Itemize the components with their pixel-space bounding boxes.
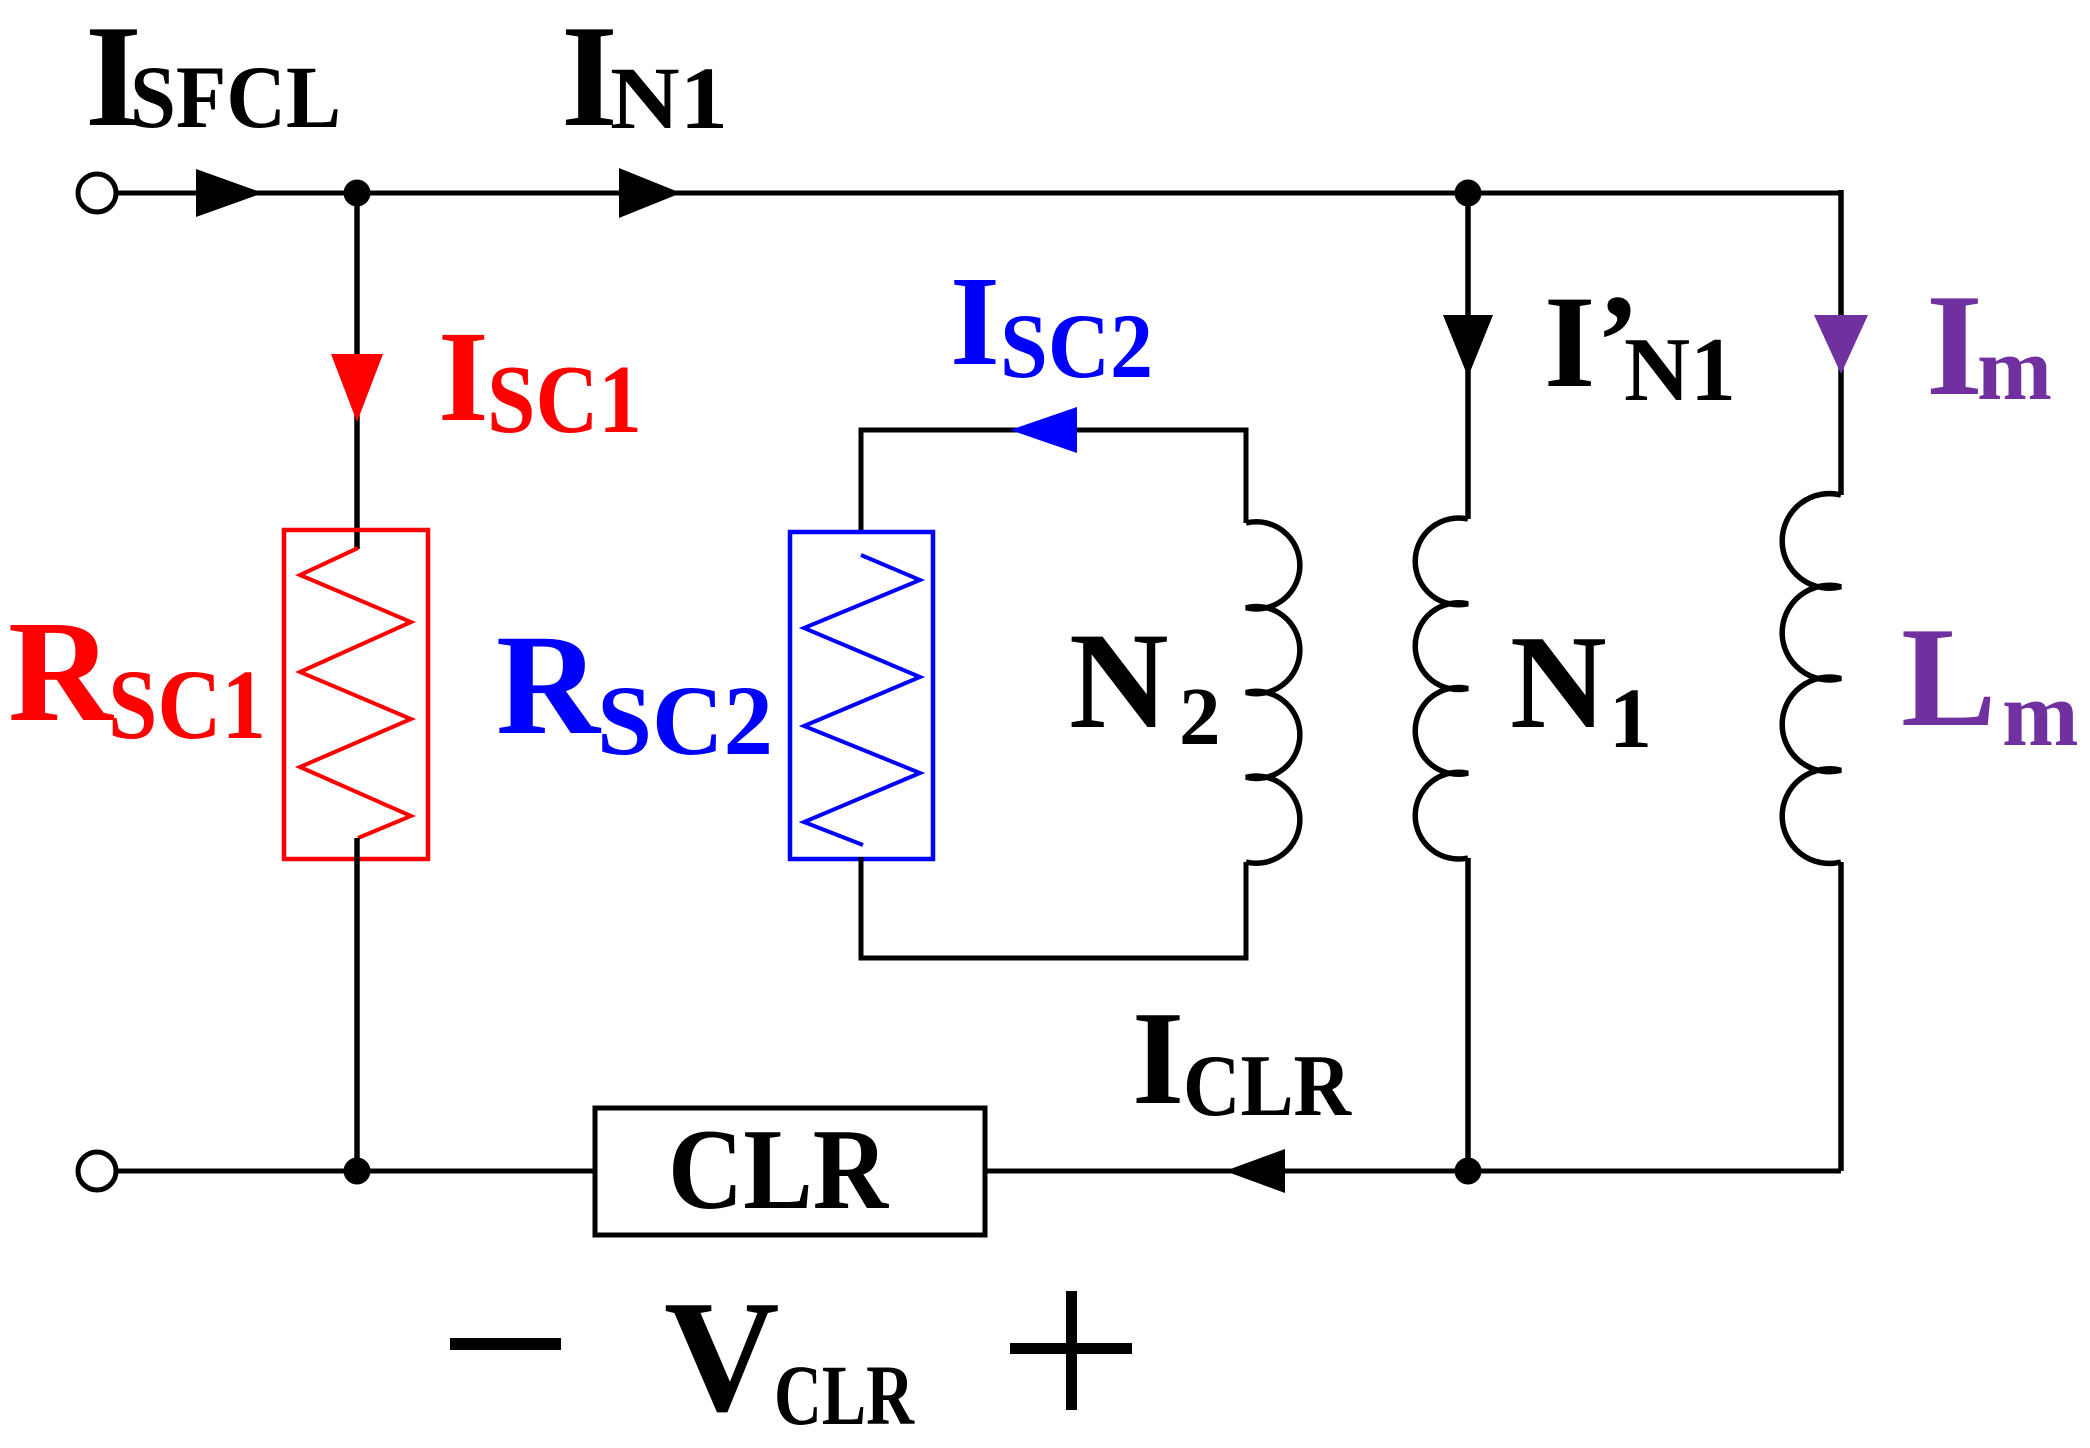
svg-text:CLR: CLR <box>1183 1038 1352 1135</box>
svg-text:I: I <box>1132 984 1184 1132</box>
wire: N1 bottom lead <box>1465 858 1471 1171</box>
current arrow I_m <box>1814 315 1868 374</box>
svg-text:N1: N1 <box>1624 319 1736 420</box>
svg-text:m: m <box>2002 663 2079 765</box>
svg-text:m: m <box>1977 320 2052 419</box>
svg-text:V: V <box>664 1267 780 1443</box>
wire: Lm branch top <box>1838 190 1844 495</box>
resistor CLR box <box>595 1108 985 1235</box>
svg-text:SC1: SC1 <box>108 649 266 760</box>
wire: bottom rail right <box>985 1169 1841 1174</box>
resistor R_SC2 box <box>790 532 933 859</box>
svg-text:I: I <box>950 250 1000 392</box>
wire: bottom rail left <box>116 1169 595 1174</box>
label V_CLR minus sign <box>450 1338 561 1350</box>
svg-text:I: I <box>1926 264 1983 426</box>
resistor R_SC1 zigzag <box>300 548 411 838</box>
node junction top-left <box>344 180 371 207</box>
wire: R_SC1 top lead <box>354 193 360 549</box>
wire: R_SC2 top lead <box>861 430 1246 532</box>
svg-text:N1: N1 <box>610 50 728 148</box>
svg-text:R: R <box>8 592 114 752</box>
svg-text:R: R <box>496 606 602 765</box>
svg-text:N: N <box>1069 604 1169 757</box>
svg-text:I: I <box>1544 268 1595 415</box>
svg-text:N: N <box>1510 608 1607 756</box>
current arrow I_SC1 <box>331 354 383 422</box>
current arrow I'_N1 <box>1443 315 1493 377</box>
node junction bottom-right <box>1455 1158 1482 1185</box>
node junction top-right <box>1455 180 1482 207</box>
svg-text:CLR: CLR <box>774 1347 915 1443</box>
resistor R_SC2 zigzag <box>804 555 920 845</box>
current arrow I_SC2 <box>1010 407 1077 453</box>
inductor N1 winding <box>1415 518 1468 859</box>
current arrow I_CLR <box>1225 1149 1285 1193</box>
wire: top rail <box>116 191 1841 196</box>
svg-text:SC2: SC2 <box>1000 295 1153 397</box>
output terminal bottom-left <box>78 1152 116 1190</box>
resistor R_SC1 box <box>284 530 428 859</box>
svg-text:CLR: CLR <box>668 1106 890 1233</box>
svg-text:SFCL: SFCL <box>130 49 341 147</box>
svg-text:2: 2 <box>1179 670 1221 762</box>
inductor Lm winding <box>1782 494 1841 864</box>
svg-text:L: L <box>1901 598 1996 756</box>
node junction bottom-left <box>344 1158 371 1185</box>
svg-text:SC1: SC1 <box>487 346 642 454</box>
svg-text:1: 1 <box>1609 670 1652 766</box>
svg-text:I: I <box>438 305 489 449</box>
inductor N2 winding <box>1246 522 1300 863</box>
input terminal top-left <box>78 174 116 212</box>
wire: Lm bottom lead <box>1838 862 1844 1171</box>
svg-text:SC2: SC2 <box>597 665 773 776</box>
wire: N1 top lead <box>1465 193 1471 519</box>
current arrow I_SFCL <box>196 169 263 217</box>
current arrow I_N1 <box>619 168 681 218</box>
wire: R_SC1 bottom lead <box>354 838 360 1171</box>
wire: N2 bottom lead <box>861 857 1246 958</box>
label V_CLR plus sign <box>1010 1343 1132 1354</box>
